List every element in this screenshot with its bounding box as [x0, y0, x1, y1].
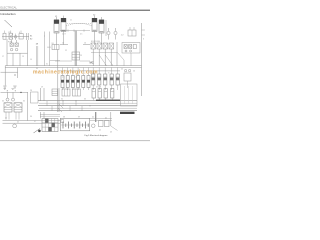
- svg-text:45: 45: [17, 122, 19, 124]
- svg-text:1 2 3: 1 2 3: [62, 34, 66, 36]
- svg-text:34: 34: [2, 101, 4, 103]
- svg-text:1 2: 1 2: [121, 35, 124, 37]
- bus wire F: [3, 122, 61, 124]
- svg-text:31: 31: [46, 64, 48, 66]
- ground G2: [13, 86, 16, 88]
- connector P2: [98, 74, 101, 85]
- fuse F2: [15, 43, 18, 46]
- svg-text:Fig.5 Electrical diagram: Fig.5 Electrical diagram: [85, 134, 108, 137]
- wire v110: [110, 112, 112, 126]
- svg-text:38: 38: [63, 116, 65, 118]
- relay K0 box: [128, 30, 136, 36]
- svg-text:26: 26: [133, 71, 135, 73]
- leader line 2: [34, 129, 41, 134]
- svg-text:16: 16: [84, 43, 86, 45]
- fuse block left wires: [7, 39, 28, 53]
- terminal block TB1: [42, 119, 58, 132]
- svg-text:14: 14: [30, 59, 32, 61]
- wire row under motors: [60, 30, 90, 32]
- resistor R1: [61, 76, 64, 88]
- lamp L1: [107, 31, 110, 34]
- relay K7: [52, 89, 58, 96]
- connector P7: [98, 89, 101, 99]
- motor M1 left pair: [54, 20, 59, 33]
- wire v49: [49, 32, 51, 66]
- harness wire 3: [38, 105, 137, 107]
- lamp L2: [114, 31, 117, 34]
- svg-text:S1: S1: [52, 43, 54, 45]
- wire h61: [55, 60, 90, 62]
- component row pin stubs: [5, 31, 22, 41]
- svg-text:4 5: 4 5: [80, 34, 82, 36]
- wire v40: [41, 88, 45, 101]
- resistor R6: [87, 76, 90, 88]
- svg-text:22: 22: [65, 50, 67, 52]
- svg-text:39: 39: [78, 116, 80, 118]
- slanted wires: [99, 52, 124, 66]
- svg-text:44: 44: [5, 117, 7, 119]
- comb pins: [93, 85, 117, 90]
- relay K2: [97, 43, 102, 49]
- svg-text:machinecatalogic.com: machinecatalogic.com: [33, 69, 98, 75]
- svg-text:M1: M1: [55, 16, 57, 18]
- bus wire B: [5, 67, 141, 69]
- relay K4: [109, 43, 114, 49]
- motor M3: [13, 124, 17, 128]
- battery BT1 frame: [60, 118, 89, 131]
- harness wire 2: [39, 102, 137, 104]
- tiny value labels texture: [2, 15, 135, 134]
- drop wires: [8, 92, 28, 120]
- wire diagonal: [111, 126, 118, 131]
- wire v44: [44, 32, 46, 66]
- drop wires to bus: [7, 53, 28, 65]
- ground labels row4: [3, 89, 6, 90]
- resistor R3: [71, 76, 74, 88]
- svg-text:6: 6: [19, 32, 20, 34]
- svg-text:23: 23: [80, 55, 82, 57]
- wire h44: [60, 44, 90, 46]
- control unit U1 outer box: [122, 43, 140, 54]
- wire h114: [40, 114, 60, 116]
- thick wire segment: [96, 99, 120, 101]
- switch S1 cluster: [52, 45, 59, 50]
- wire h53: [7, 52, 28, 54]
- svg-text:40: 40: [92, 117, 94, 119]
- relay drop wires: [93, 42, 117, 66]
- controller box U2: [121, 84, 138, 106]
- dashed arc wire between motors: [66, 23, 92, 26]
- svg-text:MC: MC: [90, 60, 94, 64]
- left bus step wires: [1, 66, 18, 86]
- wire v40 lower: [41, 112, 45, 119]
- indicator circles: [10, 48, 13, 51]
- svg-text:36: 36: [30, 116, 32, 118]
- module A1: [62, 89, 70, 96]
- svg-text:25: 25: [121, 69, 123, 71]
- bottom rule: [0, 139, 150, 142]
- harness wire 5: [38, 110, 137, 112]
- svg-text:M2: M2: [93, 15, 95, 17]
- ground G1: [3, 86, 6, 88]
- resistor R4: [77, 76, 80, 88]
- relay row link wire: [91, 51, 117, 53]
- svg-text:ELECTRICAL: ELECTRICAL: [0, 6, 17, 10]
- svg-text:41: 41: [105, 118, 107, 120]
- border stub wires: [142, 30, 145, 35]
- motor drop wires: [57, 31, 102, 44]
- svg-text:33: 33: [84, 99, 86, 101]
- wire h118: [90, 119, 112, 121]
- wire h92: [1, 91, 29, 93]
- module A2: [73, 89, 81, 96]
- svg-text:10 11: 10 11: [47, 47, 51, 49]
- harness wire 4: [39, 107, 137, 109]
- wire pair v36: [36, 46, 37, 66]
- connector comb row3 right drops: [93, 68, 117, 75]
- motor M2 right pair: [92, 18, 97, 31]
- svg-text:27: 27: [63, 87, 65, 89]
- svg-text:a b: a b: [62, 76, 64, 78]
- connector P8: [104, 89, 107, 99]
- switch S3: [105, 121, 110, 127]
- right border wire: [141, 23, 143, 96]
- fuse F4: [129, 45, 132, 49]
- svg-text:35: 35: [23, 101, 25, 103]
- connector P3: [104, 74, 107, 85]
- dashed chord wire: [67, 23, 91, 25]
- svg-text:5 6 7 8: 5 6 7 8: [96, 87, 101, 89]
- junction box J1: [31, 92, 39, 103]
- svg-text:37: 37: [34, 121, 36, 123]
- leader line 1: [5, 20, 13, 27]
- dark bus end: [120, 112, 135, 114]
- resistor R2: [66, 76, 69, 88]
- svg-text:B1: B1: [30, 35, 32, 37]
- bus wire E: [3, 120, 61, 122]
- svg-text:c d: c d: [75, 76, 77, 78]
- main vertical bus: [75, 31, 76, 66]
- svg-text:F1 F2: F1 F2: [8, 41, 12, 43]
- svg-text:15: 15: [62, 43, 64, 45]
- svg-text:19: 19: [22, 56, 24, 58]
- relay K1: [91, 43, 96, 49]
- pump motor wire: [95, 112, 97, 122]
- fuse F1: [10, 43, 13, 46]
- fuse F3: [124, 45, 127, 49]
- svg-text:21: 21: [70, 20, 72, 22]
- fuse F5: [133, 45, 136, 49]
- svg-text:7: 7: [44, 36, 45, 38]
- svg-text:43: 43: [110, 132, 112, 134]
- header rule: [0, 10, 150, 11]
- connector P6: [92, 89, 95, 99]
- component row TL: battery isolator: [2, 36, 29, 38]
- harness wire 1: [38, 100, 137, 102]
- connector P1: [92, 74, 95, 85]
- svg-text:28: 28: [30, 90, 32, 92]
- relay K6: [14, 103, 22, 112]
- indicator circles: [6, 98, 9, 101]
- battery cells: [63, 122, 88, 129]
- wire bend at bus bottom: [58, 104, 64, 112]
- connector P5: [116, 74, 119, 85]
- resistor R5: [82, 76, 85, 88]
- wire v106: [105, 20, 107, 36]
- svg-text:42: 42: [99, 130, 101, 132]
- connector P9: [111, 89, 114, 99]
- svg-text:B2: B2: [30, 39, 32, 41]
- relay pins: [6, 112, 19, 120]
- svg-text:29: 29: [41, 86, 43, 88]
- motor terminal ticks: [55, 30, 104, 32]
- relay K5: [4, 103, 12, 112]
- svg-text:3: 3: [143, 39, 144, 41]
- bus wire A: [5, 65, 141, 67]
- svg-text:17: 17: [2, 56, 4, 58]
- bus wire C: [58, 70, 120, 72]
- svg-text:Introduction: Introduction: [0, 12, 15, 16]
- svg-text:32: 32: [61, 99, 63, 101]
- connector P4: [110, 74, 113, 85]
- switch S2: [99, 121, 104, 127]
- sensor B3: [124, 69, 126, 71]
- relay K3: [103, 43, 108, 49]
- harness stubs: [47, 101, 82, 111]
- contactor box C1: [72, 52, 80, 60]
- connector comb row3 drops: [63, 68, 89, 76]
- vertical bus D: [58, 50, 59, 113]
- motor M4: [92, 124, 96, 128]
- svg-text:12 4: 12 4: [8, 32, 11, 34]
